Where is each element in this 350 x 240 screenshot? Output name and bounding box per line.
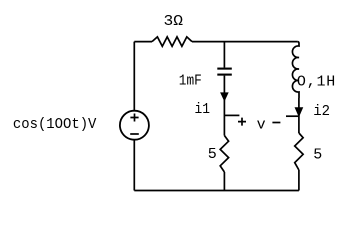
node tick left xyxy=(224,114,239,116)
current arrow i2 xyxy=(295,108,302,116)
wire middle below capacitor xyxy=(223,76,225,136)
resistor R1 3ohm xyxy=(152,37,192,46)
wire middle below resistor xyxy=(223,172,225,191)
svg-text:O,1H: O,1H xyxy=(297,73,336,90)
voltage label plus xyxy=(238,118,246,126)
voltage source V1 xyxy=(120,111,149,140)
voltage label minus xyxy=(272,122,280,124)
svg-text:v: v xyxy=(257,116,266,133)
svg-text:1mF: 1mF xyxy=(179,73,202,90)
wire bottom xyxy=(134,190,299,192)
wire right below resistor xyxy=(298,170,300,191)
wire right vertical middle xyxy=(298,98,300,133)
node tick right xyxy=(286,115,299,117)
current arrow i1 xyxy=(221,93,228,101)
wire top-left segment xyxy=(134,41,152,43)
capacitor C1 1mF xyxy=(217,69,232,75)
svg-text:i2: i2 xyxy=(313,103,330,120)
svg-text:cos(1OOt)V: cos(1OOt)V xyxy=(13,116,97,133)
wire middle stem above capacitor xyxy=(223,42,225,68)
svg-text:3Ω: 3Ω xyxy=(164,13,184,30)
svg-text:5: 5 xyxy=(208,146,217,163)
resistor R3 5 (right) xyxy=(295,133,303,170)
wire top-middle segment xyxy=(192,41,297,43)
inductor L1 0.1H xyxy=(292,42,299,98)
wire left vertical lower xyxy=(133,140,135,191)
resistor R2 5 (middle) xyxy=(220,136,228,173)
svg-text:5: 5 xyxy=(313,147,322,164)
wire left vertical upper xyxy=(133,42,135,111)
svg-text:i1: i1 xyxy=(195,101,211,118)
